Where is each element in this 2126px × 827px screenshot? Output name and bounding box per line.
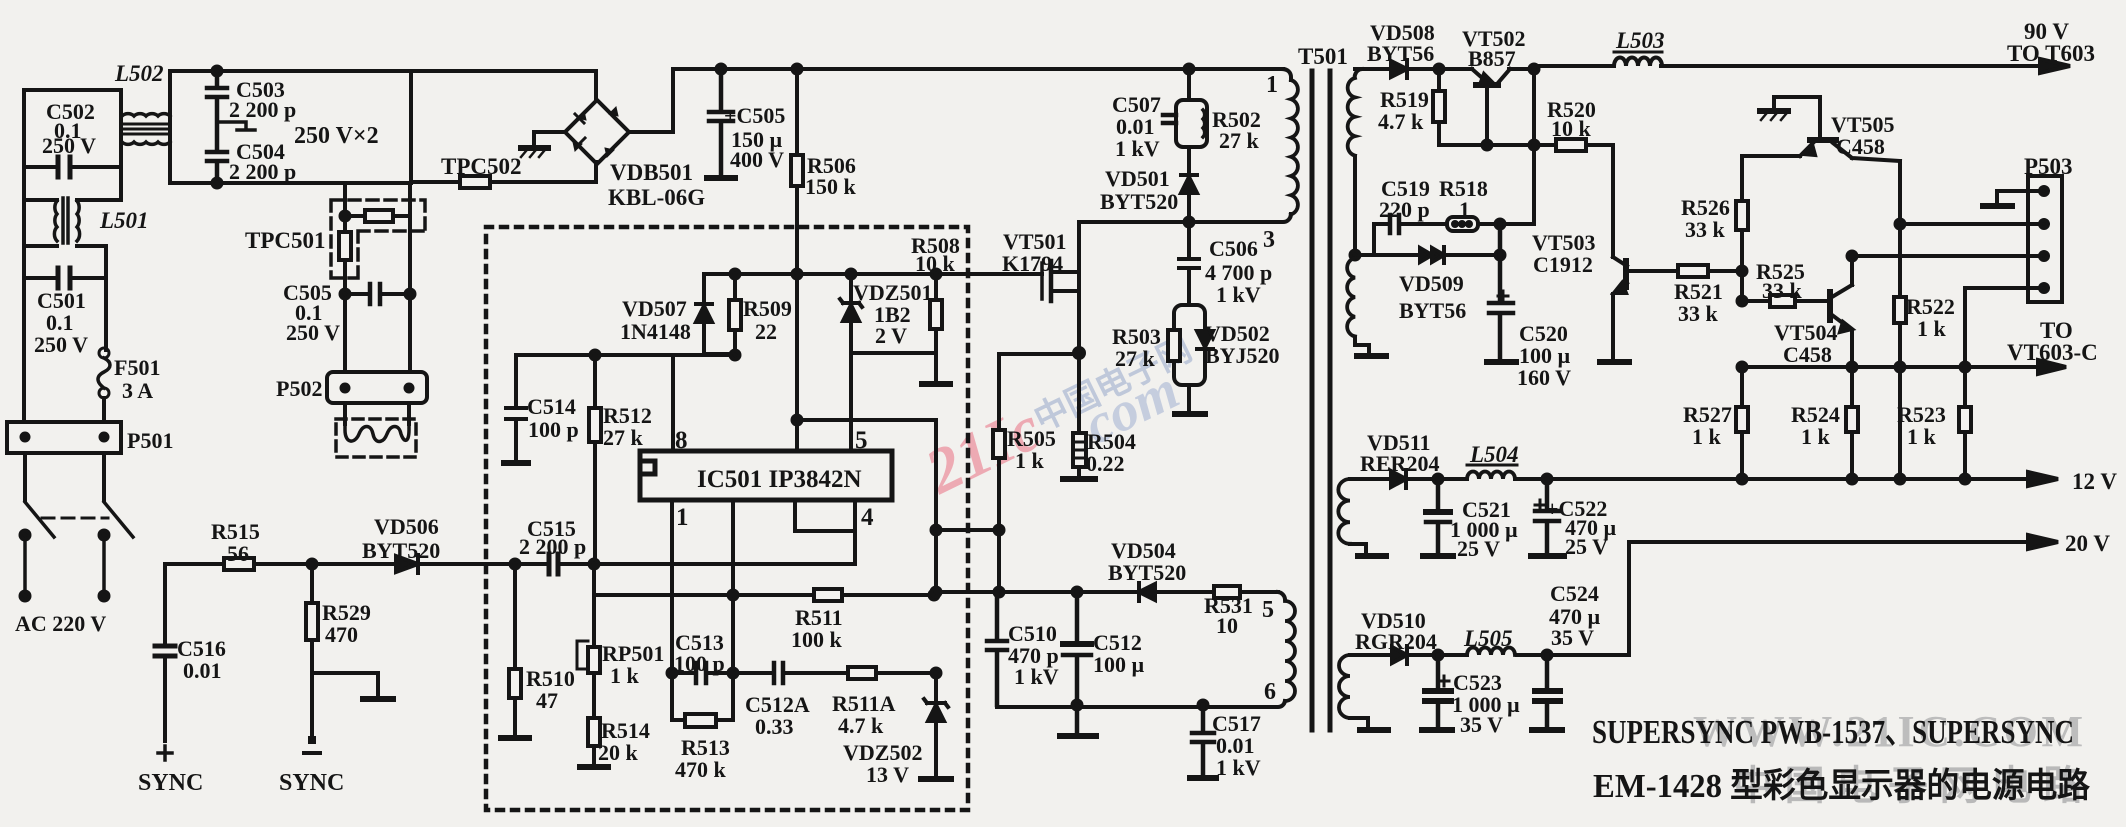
transistor VT502 [1439,67,1534,71]
diode VD504 [1139,584,1155,600]
watermark center [914,317,1216,529]
svg-text:10: 10 [1216,613,1238,638]
svg-text:L503: L503 [1615,28,1665,53]
svg-text:1 k: 1 k [610,663,640,688]
svg-text:VT603-C: VT603-C [2007,340,2098,365]
svg-text:27 k: 27 k [603,425,644,450]
dashed box TPC501 [331,200,425,278]
svg-text:IC501 IP3842N: IC501 IP3842N [697,466,862,493]
svg-text:K1794: K1794 [1002,251,1063,276]
ground R503 [1187,385,1191,412]
svg-text:2 200 p: 2 200 p [519,534,586,559]
resistor R519 [1435,65,1444,74]
transistor VT504 [1827,292,1833,320]
svg-text:1 kV: 1 kV [1115,136,1160,161]
resistor R526 [1740,158,1744,271]
rail 12V [1350,477,2035,481]
svg-text:1 k: 1 k [1801,424,1831,449]
ground tap C503/C504 [217,122,255,130]
resistor R508 [851,274,936,382]
wire P503 pin4 [1965,288,2037,367]
svg-text:1 k: 1 k [1907,424,1937,449]
svg-text:0.22: 0.22 [1086,451,1125,476]
capacitor C506 [1179,222,1199,305]
bridge VDB501 [565,100,629,164]
wire 20V [1629,542,2035,655]
text IC section [519,233,960,787]
wire 20V row [1350,653,1629,657]
capacitor C503 [207,71,227,151]
svg-text:1: 1 [676,504,689,531]
svg-text:13 V: 13 V [866,762,909,787]
svg-text:RGR204: RGR204 [1355,629,1437,654]
svg-text:L502: L502 [114,61,164,86]
svg-text:VDB501: VDB501 [610,160,693,185]
svg-text:33 k: 33 k [1678,301,1719,326]
svg-text:20 V: 20 V [2065,531,2110,556]
svg-text:C458: C458 [1783,342,1832,367]
svg-text:VD509: VD509 [1399,271,1464,296]
transistor VT505 [1818,97,1822,137]
capacitor C502 [24,90,121,167]
svg-text:150 k: 150 k [805,174,857,199]
resistor R514 [588,718,600,746]
svg-text:EM-1428 型彩色显示器的电源电路: EM-1428 型彩色显示器的电源电路 [1593,767,2091,805]
svg-text:2 200 p: 2 200 p [229,159,296,184]
diode VD507 [696,274,712,355]
inductor L504 [1467,472,1515,480]
inductor L503 [1614,58,1662,66]
snubber C507 R502 [1185,65,1194,74]
svg-text:12 V: 12 V [2072,469,2117,494]
resistor R513 [672,673,733,720]
wire right drop [408,183,412,372]
svg-text:1 kV: 1 kV [1216,282,1261,307]
svg-text:L505: L505 [1463,626,1513,651]
transformer L501 [22,167,26,422]
svg-text:BYT56: BYT56 [1367,41,1434,66]
resistor R524 [1850,367,1854,479]
svg-text:VD501: VD501 [1105,166,1170,191]
resistor TPC501 vertical [343,183,347,294]
wire ref to pin5 [797,420,936,592]
resistor R511 [814,589,842,601]
svg-text:P503: P503 [2024,154,2073,179]
svg-text:5: 5 [855,427,868,454]
wire VD504 row [936,590,1278,594]
bridge right wire [629,69,673,132]
degaussing coil [345,424,409,442]
svg-text:5: 5 [1262,597,1274,623]
svg-text:KBL-06G: KBL-06G [608,185,705,210]
resistor R515 [224,558,254,570]
svg-text:3: 3 [1263,227,1275,253]
wire R515 row [165,562,396,566]
capacitor C504 [207,152,227,183]
rail TO VT603-C [1742,365,2042,369]
svg-text:TPC501: TPC501 [245,228,326,253]
bridge top wire [594,71,598,100]
capacitor C522 [1535,479,1559,553]
capacitor C513 [672,671,733,675]
IC501 body [640,451,892,500]
rail VD507 bottom [516,322,735,355]
wire feedback vertical [1530,65,1539,74]
wire R511 row [594,564,934,595]
resistor R510 [513,564,517,736]
snubber R503 VD502 [1174,305,1205,385]
resistor R505 [997,354,1001,592]
svg-text:2 200 p: 2 200 p [229,97,296,122]
svg-text:C524: C524 [1550,581,1599,606]
diode VD508 [1391,61,1407,77]
zener VDZ502 [924,673,948,777]
svg-text:250 V×2: 250 V×2 [294,123,379,149]
diode VD511 [1391,471,1406,487]
svg-text:VD507: VD507 [622,296,687,321]
diode VD510 [1392,647,1407,663]
svg-text:100 p: 100 p [674,651,725,676]
svg-text:1 kV: 1 kV [1014,664,1059,689]
dashed box IC501 [486,227,968,810]
resistor R512 [593,355,597,563]
wire pin3 [795,500,855,531]
capacitor C505 0.1 [345,294,410,372]
svg-text:C458: C458 [1836,134,1885,159]
winding 160V [1347,258,1355,336]
svg-text:470 k: 470 k [675,757,727,782]
svg-text:27 k: 27 k [1219,128,1260,153]
resistor R506 [793,65,802,74]
svg-text:4.7 k: 4.7 k [838,713,884,738]
svg-text:VD506: VD506 [374,514,439,539]
resistor TPC501 horizontal [345,214,410,218]
winding 5-6 [1278,592,1285,599]
svg-text:2 V: 2 V [875,323,907,348]
svg-text:P501: P501 [127,428,173,453]
svg-text:SYNC: SYNC [138,770,203,796]
svg-text:1: 1 [1266,72,1278,98]
wire pin4 [853,500,857,563]
capacitor C517 [1199,701,1208,710]
svg-text:250 V: 250 V [286,320,340,345]
svg-text:SUPERSYNC PWB-1537、SUPERSYNC: SUPERSYNC PWB-1537、SUPERSYNC [1592,714,2074,751]
degaussing coil box [345,403,409,424]
plug P501 [7,422,121,453]
wire TPC502 [411,162,596,182]
svg-text:400 V: 400 V [730,147,784,172]
svg-text:20 k: 20 k [598,740,639,765]
wire base row [1439,143,1534,147]
resistor R504 [1077,353,1081,477]
svg-text:160 V: 160 V [1517,365,1571,390]
resistor TPC502 [460,176,490,188]
svg-text:1N4148: 1N4148 [620,319,691,344]
wire C515 row [486,562,855,566]
resistor R520 [1534,145,1613,257]
chassis VT505 [1774,97,1820,109]
svg-text:3 A: 3 A [122,378,153,403]
resistor R525 [1738,297,1747,306]
wire P503 pin2 [1900,222,2037,226]
svg-text:SYNC: SYNC [279,770,344,796]
resistor R511A [848,667,876,679]
mosfet VT501 [1040,263,1044,299]
diode VD509 [1355,253,1500,257]
filter box [170,71,411,183]
svg-text:+C505: +C505 [724,103,785,128]
svg-text:25 V: 25 V [1457,536,1500,561]
svg-text:1: 1 [1459,197,1470,222]
resistor R522 [1894,297,1906,323]
ground bridge left [521,132,565,148]
resistor R509 [733,274,737,355]
svg-text:35 V: 35 V [1460,712,1503,737]
inductor L505 [1467,648,1515,656]
svg-text:100 p: 100 p [528,417,579,442]
wire branch 530 [932,526,941,535]
fuse F501 [99,348,109,358]
winding 90V [1355,69,1362,75]
capacitor C515 [549,554,558,574]
svg-text:25 V: 25 V [1565,534,1608,559]
ground VDZ501 [922,381,950,387]
transformer T501 primary [1283,69,1291,80]
resistor R531 [1214,586,1240,598]
capacitor C501 [24,276,106,280]
svg-text:1 k: 1 k [1692,424,1722,449]
capacitor C524 [1535,655,1560,727]
svg-text:C1912: C1912 [1533,252,1593,277]
svg-text:1 k: 1 k [1015,448,1045,473]
resistor R529 [308,560,317,569]
capacitor C505 150u [717,65,726,74]
wire VCC pin7 [795,274,799,451]
wire VCC row [704,272,1042,276]
wire P503 pin1 [1997,191,2037,204]
wire winding top to VD508 [1355,67,1391,71]
svg-text:1 kV: 1 kV [1216,755,1261,780]
svg-text:BYJ520: BYJ520 [1205,343,1280,368]
svg-text:56: 56 [227,541,249,566]
wire top bus [411,69,1283,71]
svg-text:33 k: 33 k [1762,278,1803,303]
resistor R527 [1740,367,1744,479]
inductor L502 [122,114,170,116]
wire VT505 base drop [1898,161,1902,367]
text secondary section [1355,19,2117,737]
capacitor C521 [1426,479,1450,553]
capacitor C523 [1425,655,1451,727]
wire pin1 [670,500,674,673]
resistor R521 [1678,265,1708,277]
svg-text:L501: L501 [99,208,149,233]
svg-text:27 k: 27 k [1115,346,1156,371]
wire VT501 source [1074,348,1084,358]
wire 90V top [1534,66,2052,69]
capacitor C519 [1374,222,1447,226]
resistor R518 [1447,217,1478,231]
svg-text:220 p: 220 p [1379,197,1430,222]
svg-text:BYT520: BYT520 [1108,560,1186,585]
svg-text:0.33: 0.33 [755,714,794,739]
text AC input [15,61,440,796]
wire R522 drop [1898,367,1902,479]
svg-text:4: 4 [861,504,874,531]
svg-text:35 V: 35 V [1551,625,1594,650]
connector P503 [2028,176,2062,302]
wire P503 pin3 [1848,252,1857,261]
svg-text:6: 6 [1264,679,1276,705]
capacitor C520 [1489,224,1513,360]
svg-text:C514: C514 [527,394,576,419]
winding 20V [1339,655,1350,718]
capacitor C510 [987,592,1007,705]
svg-text:C506: C506 [1209,236,1258,261]
svg-text:F501: F501 [114,355,160,380]
capacitor C512A [733,671,848,675]
wire pin8 [671,355,675,451]
svg-text:100 µ: 100 µ [1093,652,1145,677]
core T501 [1312,71,1330,730]
text primary section [1002,44,1348,780]
svg-text:B857: B857 [1468,46,1516,71]
svg-text:250 V: 250 V [34,332,88,357]
svg-text:BYT56: BYT56 [1399,298,1466,323]
resistor R523 [1963,367,1967,479]
svg-text:TPC502: TPC502 [441,154,522,179]
text filter section [229,77,857,401]
svg-text:TO T603: TO T603 [2007,41,2095,66]
svg-text:1 k: 1 k [1917,316,1947,341]
wire pin2 [731,500,735,673]
capacitor C512 [1063,592,1091,734]
diode VD506 [396,556,418,572]
svg-text:22: 22 [755,319,777,344]
winding 12V [1338,479,1350,544]
svg-text:10 k: 10 k [915,251,956,276]
switch [25,453,104,500]
svg-text:RER204: RER204 [1360,451,1439,476]
svg-text:33 k: 33 k [1685,217,1726,242]
svg-text:AC 220 V: AC 220 V [15,611,106,636]
svg-text:4.7 k: 4.7 k [1378,109,1424,134]
svg-text:BYT520: BYT520 [362,538,440,563]
svg-text:250 V: 250 V [42,133,96,158]
diode VD501 [1181,147,1197,222]
svg-text:10 k: 10 k [1551,116,1592,141]
capacitor C516 [163,564,167,741]
zener VDZ501 [840,274,862,353]
svg-text:T501: T501 [1298,44,1348,69]
svg-text:P502: P502 [276,376,322,401]
svg-text:100 k: 100 k [791,627,843,652]
svg-text:BYT520: BYT520 [1100,189,1178,214]
svg-text:R509: R509 [743,296,792,321]
potentiometer RP501 [592,595,596,718]
svg-text:470: 470 [325,622,358,647]
arrow 90V [2040,59,2070,73]
transistor VT503 [1613,257,1627,266]
svg-text:8: 8 [675,427,688,454]
ground R529 branch [312,673,393,699]
svg-text:0.01: 0.01 [183,658,222,683]
plug P502 [327,372,427,403]
svg-text:47: 47 [536,688,558,713]
svg-text:L504: L504 [1469,442,1519,467]
capacitor C514 [506,355,526,461]
